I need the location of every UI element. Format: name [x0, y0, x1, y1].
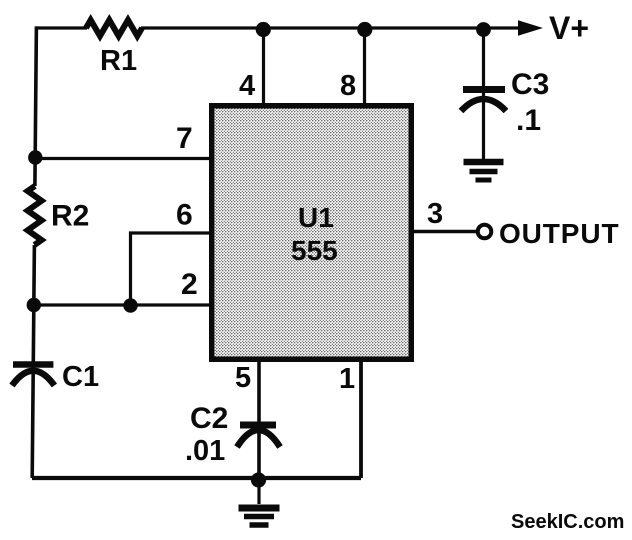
V+ arrowhead [518, 20, 543, 36]
node junction pin7/left rail [28, 150, 42, 164]
wire pin 7 to IC [35, 157, 209, 160]
svg-text:C1: C1 [62, 361, 99, 393]
svg-text:8: 8 [340, 70, 356, 102]
capacitor C3 curved plate [461, 99, 506, 111]
svg-text:.01: .01 [185, 435, 225, 467]
wire pin 8 to top rail [363, 28, 366, 103]
svg-text:.1: .1 [516, 104, 541, 137]
wire top supply rail left segment [36, 26, 87, 29]
wire C3 branch [482, 28, 485, 160]
ground under C3 [464, 162, 504, 180]
wire pin 5 down [257, 362, 261, 478]
resistor R2 [28, 186, 42, 245]
wire pin 6 to IC with vertical drop [131, 233, 210, 305]
node junction pin8/top rail [357, 22, 372, 37]
svg-text:3: 3 [427, 198, 443, 230]
resistor R1 [86, 20, 142, 36]
wire top supply rail right segment [141, 26, 521, 29]
svg-text:6: 6 [176, 199, 193, 232]
svg-text:2: 2 [181, 268, 198, 301]
wire pin 3 to output [414, 230, 478, 233]
capacitor C3 top plate [463, 86, 505, 93]
IC U1 555 body [209, 103, 414, 362]
svg-text:R2: R2 [51, 200, 89, 233]
node junction bottom rail/ground [251, 472, 266, 487]
svg-text:1: 1 [339, 363, 355, 395]
wire pin 1 down [359, 362, 363, 478]
svg-text:U1: U1 [298, 202, 334, 233]
svg-text:OUTPUT: OUTPUT [499, 218, 620, 249]
svg-text:C2: C2 [190, 402, 228, 435]
capacitor C2 curved plate [237, 430, 280, 447]
wire pin 4 to top rail [262, 28, 265, 103]
output terminal circle [478, 225, 492, 239]
svg-text:C3: C3 [511, 68, 549, 101]
wire bottom rail [32, 476, 361, 480]
svg-text:555: 555 [291, 235, 338, 266]
node junction pin2/left rail [27, 298, 41, 312]
ground at bottom [239, 478, 280, 525]
svg-text:V+: V+ [549, 10, 589, 46]
svg-text:7: 7 [176, 122, 193, 155]
node junction pin4/top rail [256, 22, 271, 37]
node junction pin6 drop on pin2 wire [123, 298, 137, 312]
node junction C3/top rail [476, 22, 491, 37]
wire left rail lower segment [32, 245, 34, 478]
capacitor C1 top plate [13, 361, 53, 368]
svg-text:R1: R1 [100, 45, 137, 77]
wire left rail upper segment [35, 26, 37, 186]
capacitor C1 curved plate [12, 371, 54, 386]
svg-text:4: 4 [239, 70, 255, 102]
svg-text:SeekIC.com: SeekIC.com [511, 511, 624, 533]
svg-text:5: 5 [235, 362, 251, 394]
wire pin 2 to IC [34, 303, 209, 306]
capacitor C2 top plate [240, 422, 276, 429]
